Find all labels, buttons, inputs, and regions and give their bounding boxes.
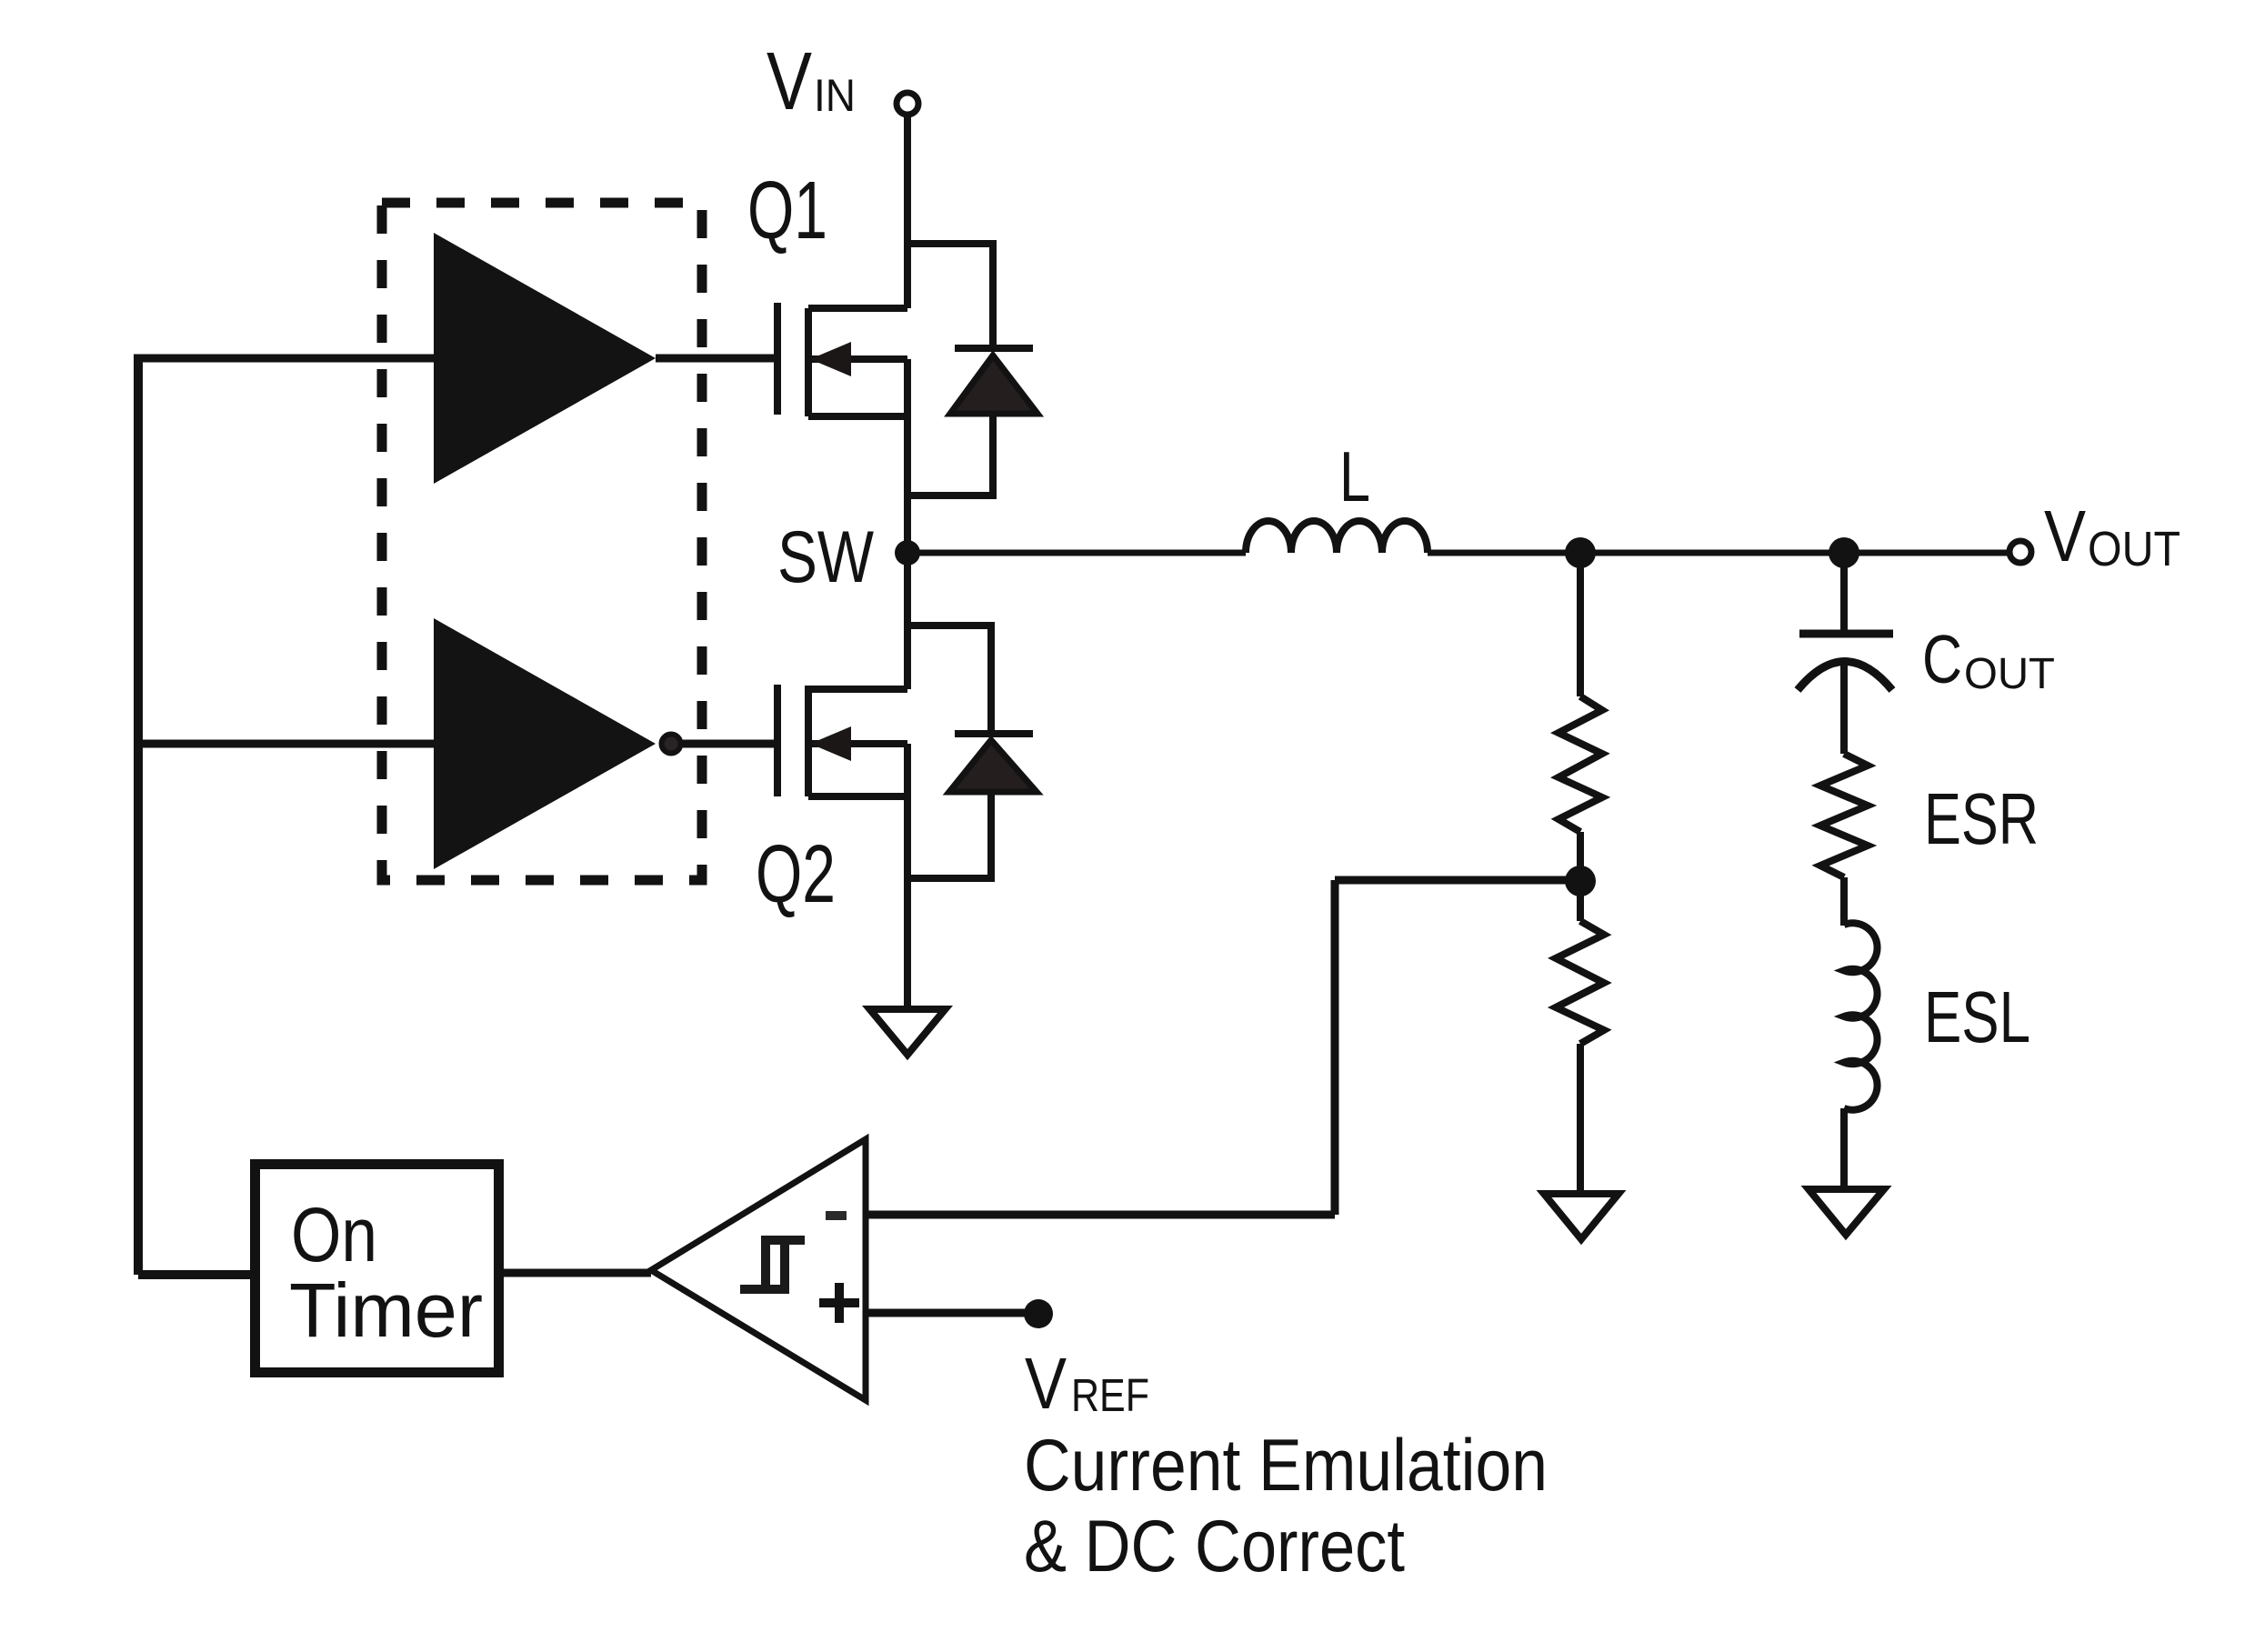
transistor Q1 body stub <box>808 355 907 363</box>
node SW junction dot <box>895 540 920 566</box>
node VOUT terminal <box>2009 541 2031 563</box>
svg-text:ESR: ESR <box>1924 778 2039 859</box>
wire buffer1 output to Q1 gate <box>656 355 774 363</box>
svg-text:REF: REF <box>1071 1369 1149 1421</box>
ground under ESL <box>1809 1189 1884 1235</box>
wire buffer1 input <box>134 355 434 363</box>
svg-text:Timer: Timer <box>289 1267 483 1353</box>
transistor Q1 gate bar <box>774 303 781 415</box>
svg-text:L: L <box>1339 436 1370 516</box>
node VREF dot <box>1024 1299 1053 1328</box>
resistor ESR zigzag <box>1820 754 1868 877</box>
node output rail dot A <box>1565 537 1596 568</box>
wire VIN vertical to Q1 drain <box>904 117 911 308</box>
wire Q2 source to ground <box>904 744 911 1006</box>
wire tap to riser <box>1335 876 1580 885</box>
svg-text:Q1: Q1 <box>747 165 827 256</box>
wire comparator output to On Timer <box>504 1269 651 1277</box>
label VREF <box>1025 1343 1149 1424</box>
wire ESL to ground <box>1840 1108 1848 1186</box>
svg-text:OUT: OUT <box>2088 522 2180 576</box>
svg-text:V: V <box>2044 496 2087 576</box>
resistor R2 zigzag <box>1556 921 1604 1044</box>
comparator minus sign <box>826 1211 847 1220</box>
transistor Q2 gate bar <box>774 685 781 796</box>
svg-text:Q2: Q2 <box>756 829 836 920</box>
wire buffer2 input <box>138 740 434 748</box>
wire inverter output to Q2 gate <box>683 740 774 748</box>
wire divider top <box>1577 553 1584 696</box>
wire inductor to VOUT terminal <box>1428 550 2008 556</box>
node output rail dot B <box>1829 537 1859 568</box>
diode D1 cathode bar <box>955 345 1033 352</box>
wire comparator plus input <box>866 1309 1038 1317</box>
transistor Q2 body stub <box>808 740 907 747</box>
wire COUT to ESR <box>1840 662 1848 754</box>
dashed driver box <box>382 203 702 880</box>
comparator U1 triangle <box>651 1139 866 1400</box>
transistor Q1 body arrow <box>810 342 851 376</box>
svg-text:IN: IN <box>814 70 856 121</box>
wire VOUT to COUT <box>1840 553 1848 630</box>
capacitor COUT curved plate <box>1798 662 1892 691</box>
wire SW rail to inductor <box>907 550 1246 556</box>
capacitor COUT top plate <box>1799 630 1893 638</box>
diode D1 branch wires <box>907 244 993 496</box>
svg-text:OUT: OUT <box>1964 650 2055 698</box>
wire R1 to tap <box>1577 832 1584 881</box>
wire riser vertical <box>1331 880 1339 1215</box>
buffer driver 1 <box>434 233 656 484</box>
diode D2 triangle <box>949 740 1037 792</box>
svg-text:C: C <box>1922 621 1962 697</box>
wire Q1 source to SW to Q2 drain <box>904 359 911 689</box>
transistor Q2 source stub <box>808 793 907 800</box>
diode D2 branch wires <box>907 626 991 878</box>
inductor ESL coil <box>1844 923 1878 1110</box>
label VIN <box>767 36 856 127</box>
label VOUT <box>2044 496 2180 576</box>
transistor Q1 source stub <box>808 413 907 420</box>
svg-text:SW: SW <box>777 516 874 598</box>
label COUT <box>1922 621 2055 698</box>
comparator hysteresis symbol <box>740 1240 805 1289</box>
box On Timer <box>256 1165 499 1373</box>
transistor Q2 body arrow <box>810 726 851 761</box>
svg-text:On: On <box>291 1192 377 1277</box>
svg-text:V: V <box>1025 1343 1067 1424</box>
node feedback tap dot <box>1565 866 1596 896</box>
comparator plus sign <box>819 1283 859 1323</box>
inductor L <box>1246 521 1428 553</box>
wire riser to comparator minus input <box>866 1211 1335 1219</box>
transistor Q2 channel bar <box>805 686 812 796</box>
ground under divider <box>1544 1194 1619 1239</box>
diode D1 triangle <box>950 355 1037 414</box>
inverter bubble <box>662 735 681 754</box>
transistor Q2 drain stub <box>808 686 907 693</box>
wire R2 to ground <box>1577 1044 1584 1190</box>
ground under Q2 <box>870 1009 946 1055</box>
svg-text:& DC Correct: & DC Correct <box>1024 1506 1405 1587</box>
wire On Timer to feedback vertical <box>138 1270 256 1279</box>
wire feedback left vertical <box>134 358 143 1275</box>
resistor R1 zigzag <box>1558 696 1602 832</box>
wire ESR to ESL <box>1840 877 1848 926</box>
diode D2 cathode bar <box>955 730 1033 737</box>
label On Timer <box>289 1192 483 1353</box>
transistor Q1 drain stub <box>808 305 907 312</box>
svg-text:ESL: ESL <box>1924 976 2030 1057</box>
wire tap to R2 <box>1577 881 1584 921</box>
transistor Q1 channel bar <box>805 308 812 416</box>
svg-text:Current Emulation: Current Emulation <box>1024 1425 1548 1507</box>
inverter driver 2 <box>434 618 656 869</box>
node VIN terminal <box>897 93 918 115</box>
svg-text:V: V <box>767 36 812 127</box>
